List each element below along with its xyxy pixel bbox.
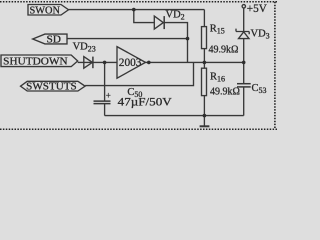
node dot R15/R16 — [203, 61, 207, 65]
resistor R16 — [202, 68, 207, 95]
svg-text:+5V: +5V — [247, 3, 267, 15]
node dot 2003 output — [147, 61, 151, 65]
wire C50 top lead — [104, 62, 106, 101]
border right (dotted) — [274, 2, 276, 130]
wire VD3 anode to node — [243, 39, 245, 63]
flag SHUTDOWN outline — [1, 55, 78, 67]
wire SWSTUTS riser — [85, 62, 193, 85]
wire R16 bottom lead — [203, 96, 205, 116]
terminal +5V circle — [242, 5, 245, 8]
wire C50 bottom lead — [104, 104, 106, 116]
svg-text:47µF/50V: 47µF/50V — [118, 95, 172, 109]
wire R15 top lead from SWON wire — [203, 10, 205, 27]
ground — [203, 116, 205, 126]
border top (dotted) — [0, 1, 277, 3]
wire SD net — [67, 38, 188, 40]
flag SWSTUTS outline — [21, 81, 86, 91]
wire +5V lead — [243, 8, 245, 31]
wire R15 bottom lead — [203, 49, 205, 63]
border bottom (dotted) — [0, 128, 277, 130]
flag SD outline — [33, 34, 67, 44]
wire VD2 branch from top wire — [134, 10, 155, 23]
zener diode VD3 — [236, 29, 249, 35]
svg-text:SWSTUTS: SWSTUTS — [26, 82, 77, 93]
node dot VD3/C53 — [242, 61, 246, 65]
wire bottom rail — [105, 115, 244, 117]
node dot SD / VD2 — [186, 37, 190, 41]
node dot ground rail — [203, 114, 207, 118]
resistor R15 — [202, 27, 207, 49]
svg-text:SWON: SWON — [30, 5, 61, 16]
capacitor C53 plates — [237, 83, 251, 85]
wire main mid row (SHUTDOWN input and output node row) — [78, 61, 117, 63]
diode VD2 — [154, 16, 163, 29]
svg-text:SD: SD — [47, 35, 62, 46]
wire C53 bottom lead — [243, 87, 245, 116]
wire SWON net (top) — [69, 9, 205, 11]
wire R16 top lead — [203, 62, 205, 68]
capacitor C50 plates — [94, 100, 111, 102]
svg-text:49.9kΩ: 49.9kΩ — [209, 44, 239, 56]
node dot VD23 / C50 / 2003 input — [103, 61, 107, 65]
wire 2003 output row — [146, 61, 244, 63]
svg-text:2003: 2003 — [119, 57, 142, 69]
svg-text:SHUTDOWN: SHUTDOWN — [3, 56, 68, 67]
buffer U1 2003 — [117, 47, 146, 79]
diode VD23 — [84, 57, 93, 69]
svg-text:+: + — [106, 91, 111, 101]
wire C53 top lead — [243, 62, 245, 83]
wire VD2 cathode to SD node, down to output node — [164, 23, 187, 63]
flag SWON outline — [28, 5, 69, 16]
svg-text:49.9kΩ: 49.9kΩ — [210, 86, 240, 98]
node dot top wire / VD2 branch — [132, 8, 136, 12]
